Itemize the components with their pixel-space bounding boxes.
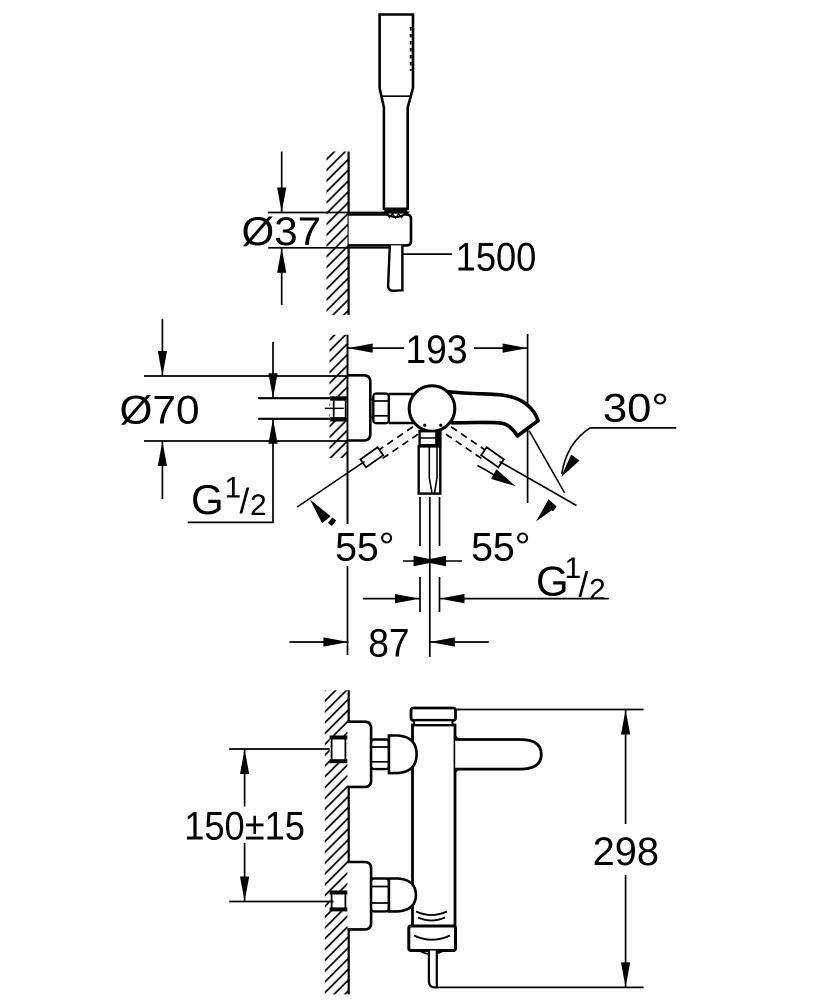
svg-text:1500: 1500 [456,235,537,279]
svg-text:30°: 30° [603,386,669,430]
svg-text:55°: 55° [335,525,394,569]
svg-text:193: 193 [406,328,468,372]
svg-text:/: / [240,482,250,521]
svg-text:2: 2 [589,574,606,607]
svg-text:150±15: 150±15 [184,804,305,848]
svg-text:/: / [579,566,589,605]
svg-text:2: 2 [250,489,267,522]
svg-text:Ø37: Ø37 [242,210,322,254]
svg-text:55°: 55° [471,525,530,569]
svg-text:87: 87 [368,622,409,666]
svg-text:G: G [191,476,224,523]
svg-text:298: 298 [593,830,659,874]
svg-text:Ø70: Ø70 [120,388,200,432]
